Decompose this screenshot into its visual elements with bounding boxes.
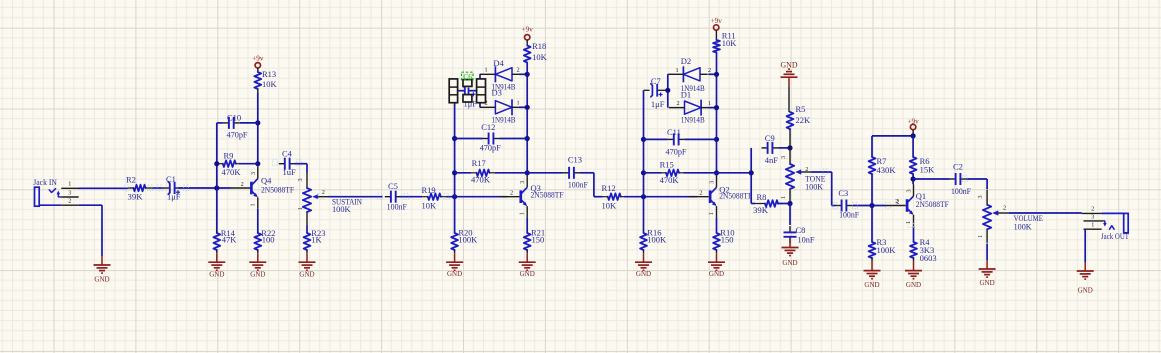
svg-text:1: 1 [249,203,256,206]
svg-text:1: 1 [708,212,715,215]
svg-text:470K: 470K [471,175,491,185]
svg-text:3: 3 [977,195,984,198]
svg-text:100nF: 100nF [951,186,971,196]
svg-text:10K: 10K [422,200,438,210]
svg-text:2: 2 [805,166,808,173]
svg-text:C11: C11 [667,127,681,137]
svg-text:2N5088TF: 2N5088TF [719,190,752,200]
svg-text:2: 2 [708,67,711,74]
svg-text:GND: GND [636,269,652,278]
svg-text:3: 3 [709,181,716,184]
svg-text:1: 1 [516,100,519,107]
svg-text:150: 150 [532,235,545,245]
svg-text:1: 1 [484,67,487,74]
svg-text:C9: C9 [765,133,775,143]
svg-text:100K: 100K [332,204,351,214]
svg-text:2N5088TF: 2N5088TF [261,184,294,194]
svg-text:R2: R2 [126,175,136,185]
svg-text:C7: C7 [651,76,661,86]
svg-text:2: 2 [895,198,898,205]
svg-text:1: 1 [519,212,526,215]
svg-text:470pF: 470pF [227,130,248,140]
svg-text:47K: 47K [222,234,238,244]
svg-text:150: 150 [721,235,734,245]
svg-text:+9v: +9v [907,117,919,125]
svg-text:1: 1 [297,207,304,210]
svg-text:D3: D3 [492,87,502,97]
svg-text:+9v: +9v [522,26,534,34]
svg-text:R13: R13 [262,69,276,79]
svg-text:GND: GND [782,258,798,267]
svg-text:3: 3 [780,156,787,159]
svg-text:GND: GND [864,280,880,289]
svg-text:1: 1 [1091,222,1094,229]
svg-text:+9v: +9v [711,17,723,25]
svg-text:1: 1 [780,196,787,199]
svg-text:GND: GND [250,270,266,279]
svg-text:+9v: +9v [252,55,264,63]
svg-text:100: 100 [262,234,275,244]
svg-text:470pF: 470pF [480,142,501,152]
svg-text:470K: 470K [660,175,680,185]
svg-text:R17: R17 [472,158,486,168]
svg-text:1N914B: 1N914B [681,115,705,125]
svg-text:470K: 470K [222,167,242,177]
svg-text:10K: 10K [602,200,618,210]
svg-text:Jack IN: Jack IN [33,177,57,187]
svg-text:10K: 10K [262,79,278,89]
svg-text:2: 2 [241,181,244,188]
svg-text:GND: GND [1078,286,1094,295]
svg-text:2: 2 [1003,205,1006,212]
svg-text:GND: GND [980,278,996,287]
svg-text:C2: C2 [953,162,963,172]
svg-text:100nF: 100nF [839,210,859,220]
svg-text:GND: GND [781,60,798,70]
svg-text:100K: 100K [458,235,478,245]
svg-text:Jack OUT: Jack OUT [1101,231,1130,241]
svg-text:430K: 430K [877,165,897,175]
svg-text:10K: 10K [722,38,738,48]
svg-text:GND: GND [906,280,922,289]
svg-text:C13: C13 [568,154,582,164]
svg-text:3: 3 [906,189,913,192]
svg-text:D1: D1 [681,90,691,100]
svg-text:100K: 100K [647,235,667,245]
svg-text:3: 3 [68,189,71,196]
svg-text:22K: 22K [796,115,812,125]
svg-text:D4: D4 [493,58,504,68]
svg-text:GND: GND [709,269,725,278]
svg-text:2: 2 [516,67,519,74]
svg-text:39K: 39K [753,205,769,215]
svg-text:C12: C12 [481,122,495,132]
svg-text:C6: C6 [463,72,472,81]
svg-text:2N5088TF: 2N5088TF [531,190,564,200]
svg-text:GND: GND [447,269,463,278]
svg-text:100K: 100K [877,245,897,255]
svg-text:1: 1 [68,181,71,188]
svg-text:R5: R5 [796,104,806,114]
svg-text:R12: R12 [602,183,616,193]
svg-text:39K: 39K [128,192,144,202]
svg-text:C5: C5 [388,181,398,191]
svg-text:1K: 1K [311,234,322,244]
svg-text:3: 3 [297,178,304,181]
svg-text:C8: C8 [796,225,806,235]
svg-text:3: 3 [519,181,526,184]
svg-text:C3: C3 [838,188,848,198]
svg-text:100K: 100K [805,181,824,191]
svg-text:R9: R9 [224,151,234,161]
svg-text:R19: R19 [422,185,436,195]
svg-text:100nF: 100nF [387,202,408,212]
svg-text:R18: R18 [532,41,546,51]
svg-text:1uF: 1uF [283,167,297,177]
svg-text:1: 1 [977,235,984,238]
svg-text:1: 1 [708,100,711,107]
svg-text:2: 2 [510,190,513,197]
svg-text:4nF: 4nF [765,155,779,165]
svg-text:C10: C10 [227,112,241,122]
svg-text:10K: 10K [532,52,548,62]
svg-text:1: 1 [675,67,678,74]
svg-text:GND: GND [299,270,315,279]
svg-text:GND: GND [209,270,225,279]
svg-text:2: 2 [1091,206,1094,213]
svg-text:D2: D2 [681,56,691,66]
svg-text:2: 2 [68,198,71,205]
svg-text:GND: GND [94,275,110,284]
svg-text:2: 2 [699,190,702,197]
svg-text:15K: 15K [920,164,936,174]
svg-text:R15: R15 [660,159,674,169]
svg-text:2N5088TF: 2N5088TF [916,199,949,209]
svg-text:3: 3 [250,172,257,175]
svg-text:470pF: 470pF [666,147,687,157]
svg-text:C1: C1 [166,174,176,184]
svg-text:1μF: 1μF [651,99,665,109]
svg-text:100nF: 100nF [568,179,588,189]
svg-text:C4: C4 [282,149,293,159]
svg-text:0603: 0603 [920,253,937,263]
svg-text:3: 3 [1091,214,1094,221]
svg-text:2: 2 [676,100,679,107]
svg-text:100K: 100K [1014,221,1033,231]
svg-text:1μF: 1μF [167,192,181,202]
svg-text:2: 2 [484,100,487,107]
svg-text:10nF: 10nF [798,235,815,245]
svg-text:GND: GND [520,269,536,278]
svg-text:R8: R8 [757,192,767,202]
